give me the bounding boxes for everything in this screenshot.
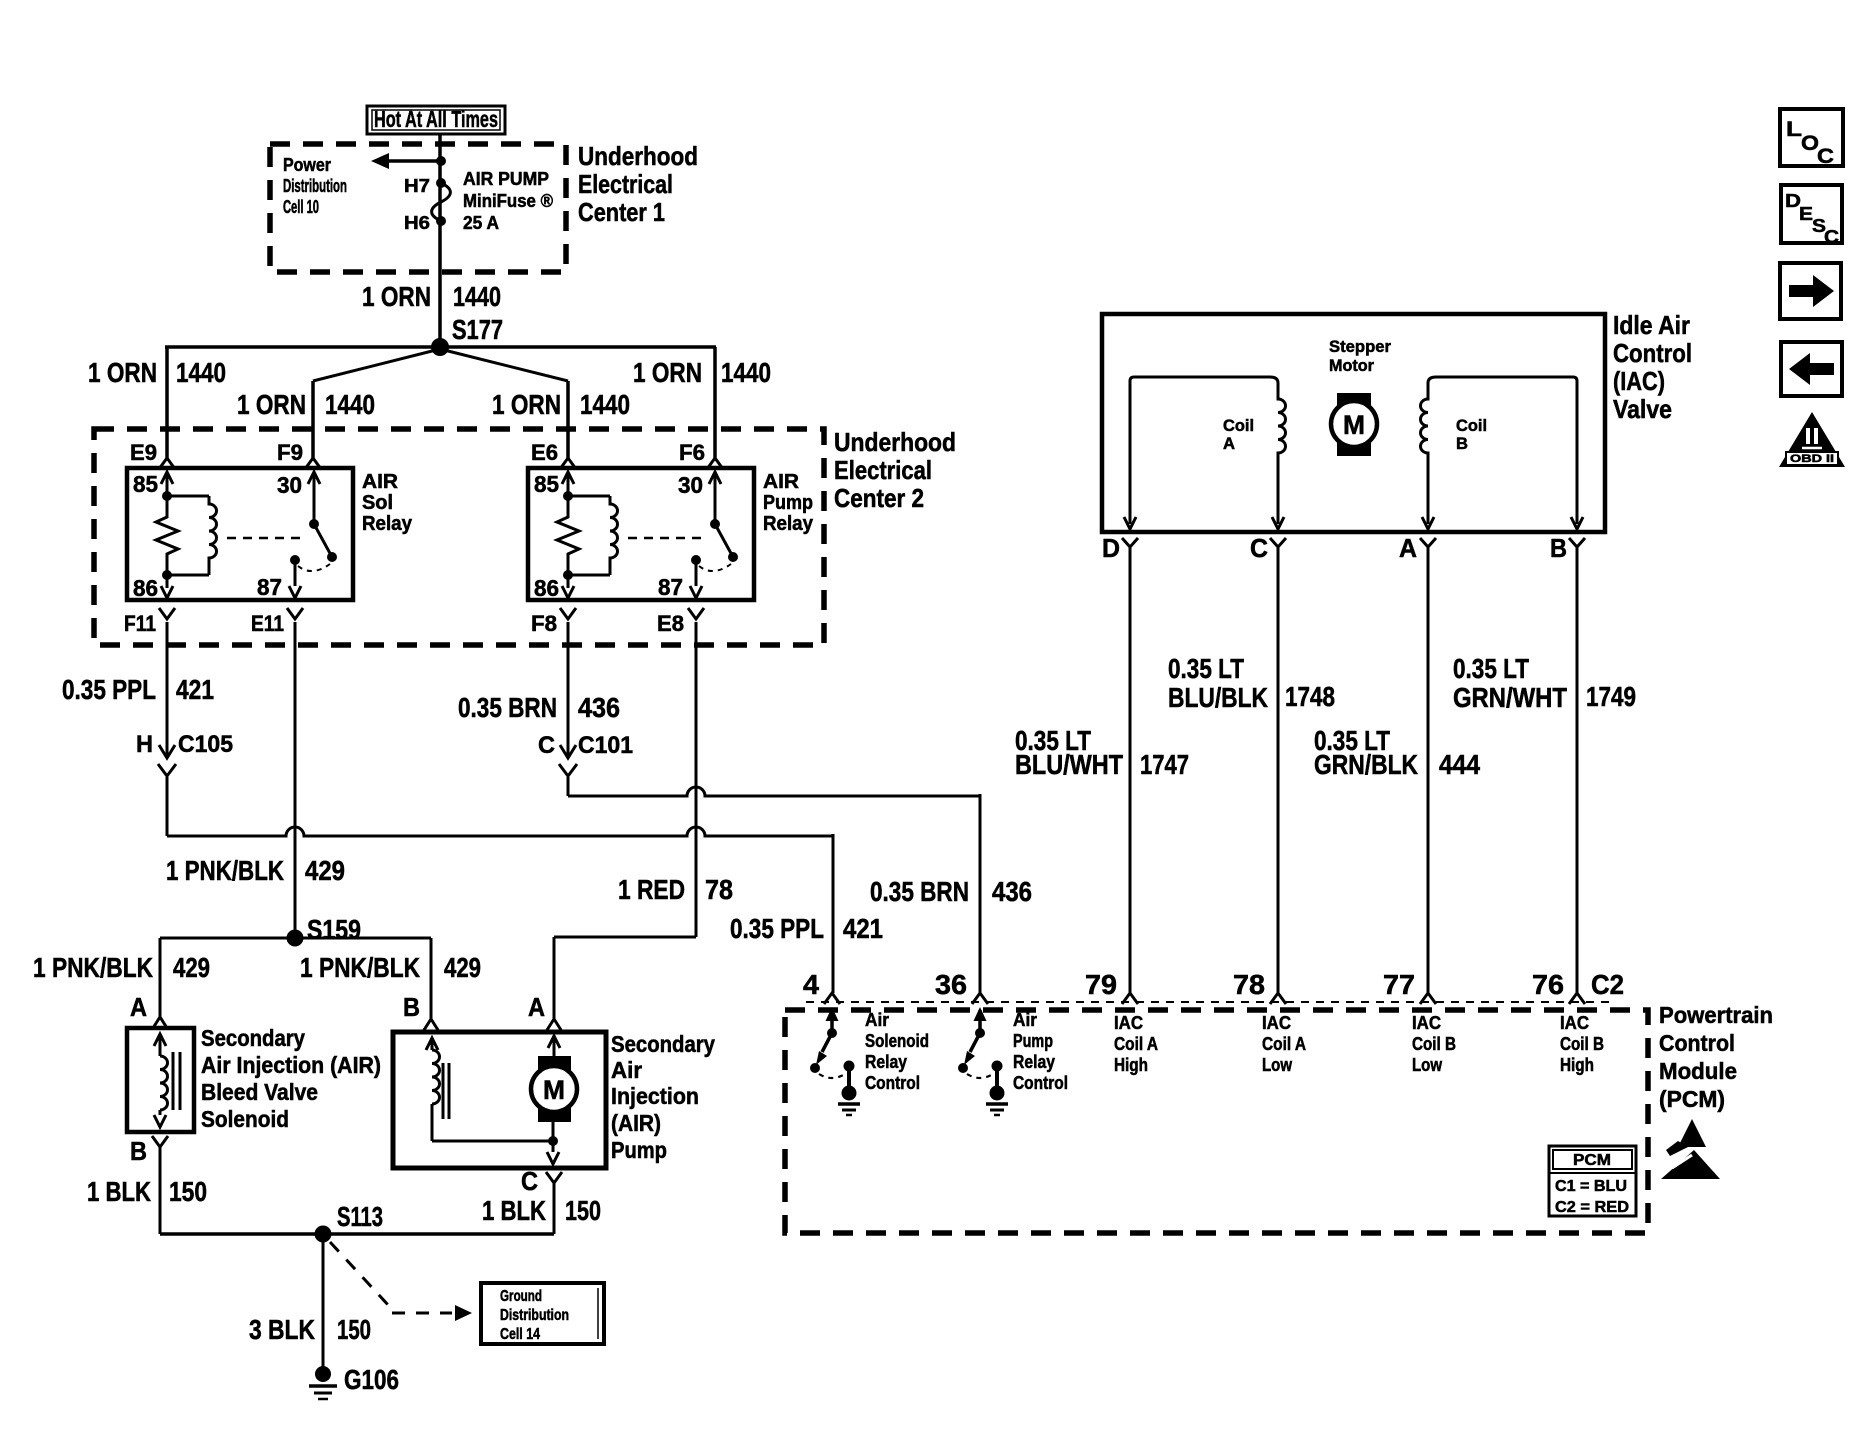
svg-text:Stepper: Stepper (1329, 337, 1391, 356)
splice S159 (287, 930, 304, 947)
box: Idle Air Control (IAC) Valve (1102, 314, 1605, 532)
svg-text:0.35 BRN: 0.35 BRN (458, 692, 557, 723)
svg-text:436: 436 (992, 876, 1032, 907)
PCM pin 76 connector (1569, 993, 1585, 1004)
svg-text:1 ORN: 1 ORN (237, 389, 306, 420)
wire: 1 RED 78 from E8 (695, 622, 698, 937)
svg-text:Valve: Valve (1613, 394, 1672, 424)
svg-text:1748: 1748 (1285, 681, 1335, 712)
connector E11 (287, 608, 303, 619)
component: Secondary Air Injection (AIR) Pump (393, 1032, 606, 1168)
svg-text:AIR PUMP: AIR PUMP (463, 169, 549, 189)
wire: diagonal to E6 (440, 349, 568, 381)
svg-text:Distribution: Distribution (283, 176, 347, 196)
svg-text:M: M (543, 1075, 565, 1105)
svg-text:F9: F9 (277, 440, 303, 465)
connector pin B (IAC) (1569, 538, 1585, 547)
svg-text:0.35 BRN: 0.35 BRN (870, 876, 969, 907)
svg-text:Relay: Relay (763, 513, 814, 535)
svg-text:Control: Control (1013, 1073, 1068, 1093)
svg-text:Coil: Coil (1223, 416, 1254, 435)
svg-text:1 ORN: 1 ORN (88, 357, 157, 388)
box: Powertrain Control Module (PCM) dashed (785, 1010, 1648, 1233)
svg-text:Air: Air (1013, 1010, 1037, 1030)
svg-text:IAC: IAC (1412, 1013, 1441, 1033)
wire: 3 BLK 150 to G106 (322, 1234, 325, 1369)
svg-text:S159: S159 (307, 914, 361, 945)
svg-text:C: C (1250, 533, 1268, 563)
svg-text:S177: S177 (452, 314, 503, 345)
svg-text:Relay: Relay (865, 1052, 907, 1072)
connector F6 (707, 458, 723, 469)
svg-text:Underhood: Underhood (578, 141, 698, 171)
svg-text:87: 87 (658, 574, 683, 600)
connector pin B (pump) (424, 1019, 438, 1030)
connector pin D (IAC) (1122, 538, 1138, 547)
svg-text:A: A (528, 992, 545, 1022)
wire: 1 BLK 150 from solenoid B (159, 1147, 162, 1234)
wire: S159 horizontal (160, 937, 431, 940)
svg-text:Solenoid: Solenoid (865, 1031, 929, 1051)
relay: AIR Sol Relay (127, 468, 353, 600)
svg-text:76: 76 (1532, 969, 1564, 1000)
svg-text:1747: 1747 (1140, 749, 1189, 780)
icon: DESC button (1781, 185, 1842, 243)
svg-text:AIR: AIR (362, 471, 399, 493)
connector pin C (pump) (546, 1172, 562, 1183)
svg-text:1 ORN: 1 ORN (362, 281, 431, 312)
svg-text:BLU/WHT: BLU/WHT (1015, 749, 1123, 780)
svg-text:Electrical: Electrical (834, 455, 932, 485)
box: Underhood Electrical Center 1 (dashed) (270, 144, 566, 272)
svg-text:1 BLK: 1 BLK (87, 1176, 151, 1207)
svg-text:36: 36 (935, 969, 967, 1000)
PCM pin 36 connector (972, 993, 988, 1004)
wire: IAC C to PCM 78 (0.35 LT BLU/BLK 1748) (1277, 547, 1280, 993)
svg-text:0.35 LT: 0.35 LT (1453, 653, 1529, 684)
svg-text:MiniFuse ®: MiniFuse ® (463, 191, 553, 211)
svg-text:Pump: Pump (1013, 1031, 1053, 1051)
connector face dotted line (806, 1001, 1612, 1003)
wire: IAC A to PCM 77 (0.35 LT GRN/BLK 444) (1427, 547, 1430, 993)
icon: forward arrow button (1780, 263, 1841, 319)
wire: IAC B to PCM 76 (0.35 LT GRN/WHT 1749) (1576, 547, 1579, 993)
svg-text:85: 85 (133, 471, 158, 497)
svg-text:E8: E8 (657, 611, 684, 636)
label box: Hot At All Times (367, 106, 505, 134)
svg-text:B: B (1550, 533, 1567, 563)
svg-text:429: 429 (305, 855, 345, 886)
PCM pin 4 connector (824, 993, 840, 1004)
svg-text:H: H (136, 731, 153, 758)
svg-text:78: 78 (705, 874, 733, 905)
connector pin A (pump) (547, 1019, 561, 1030)
svg-text:1 PNK/BLK: 1 PNK/BLK (300, 952, 420, 983)
connector pin A (solenoid) (153, 1017, 167, 1028)
connector E6 (560, 458, 576, 469)
wire: 1 BLK 150 from pump C (553, 1183, 556, 1234)
svg-text:(IAC): (IAC) (1613, 366, 1665, 396)
svg-text:Center 1: Center 1 (578, 197, 665, 227)
svg-text:Air Injection (AIR): Air Injection (AIR) (201, 1052, 381, 1078)
svg-text:IAC: IAC (1560, 1013, 1589, 1033)
svg-text:1 RED: 1 RED (618, 874, 685, 905)
stepper motor M (1337, 393, 1371, 456)
svg-text:150: 150 (169, 1176, 207, 1207)
svg-text:B: B (130, 1136, 147, 1166)
svg-text:Power: Power (283, 155, 331, 175)
svg-text:High: High (1560, 1055, 1594, 1075)
wire: BRN 436 to PCM pin 36 (567, 777, 570, 796)
connector F8 (560, 608, 576, 619)
svg-text:1 ORN: 1 ORN (633, 357, 702, 388)
connector E8 (688, 608, 704, 619)
icon: OBD II warning triangle (1779, 412, 1845, 467)
svg-text:Coil A: Coil A (1114, 1034, 1158, 1054)
svg-text:F8: F8 (531, 611, 557, 636)
arrowhead to Power Distribution (371, 153, 389, 169)
svg-text:G106: G106 (344, 1364, 399, 1395)
svg-text:78: 78 (1233, 969, 1265, 1000)
svg-text:(AIR): (AIR) (611, 1110, 661, 1136)
svg-text:Injection: Injection (611, 1083, 699, 1109)
svg-text:86: 86 (133, 575, 158, 601)
svg-text:1 ORN: 1 ORN (492, 389, 561, 420)
svg-text:E6: E6 (531, 440, 558, 465)
svg-text:1440: 1440 (721, 357, 771, 388)
svg-text:C2 = RED: C2 = RED (1555, 1199, 1629, 1216)
svg-text:F6: F6 (679, 440, 705, 465)
wire: 0.35 BRN 436 from F8 (567, 622, 570, 756)
svg-text:Pump: Pump (763, 492, 813, 514)
PCM: Air Pump Relay Control driver (978, 1010, 982, 1033)
in-line connector C101 pin C (560, 745, 576, 758)
svg-text:Control: Control (1659, 1030, 1735, 1056)
svg-text:Coil: Coil (1456, 416, 1487, 435)
svg-text:1 PNK/BLK: 1 PNK/BLK (166, 855, 284, 886)
svg-text:77: 77 (1383, 969, 1415, 1000)
splice S113 (315, 1226, 332, 1243)
svg-text:150: 150 (565, 1195, 601, 1226)
svg-text:L: L (1786, 118, 1802, 141)
wire: diagonal to F9 (313, 349, 440, 381)
svg-text:Air: Air (611, 1057, 642, 1083)
relay: AIR Pump Relay (528, 468, 754, 600)
svg-text:M: M (1343, 410, 1365, 440)
svg-text:0.35 LT: 0.35 LT (1168, 653, 1244, 684)
svg-text:85: 85 (534, 471, 559, 497)
svg-text:1 PNK/BLK: 1 PNK/BLK (33, 952, 153, 983)
svg-text:Coil A: Coil A (1262, 1034, 1306, 1054)
svg-text:1749: 1749 (1586, 681, 1636, 712)
wire: 0.35 PPL 421 from F11 (166, 622, 169, 756)
junction to Power Distribution (436, 156, 446, 166)
svg-text:A: A (1399, 533, 1417, 563)
svg-text:25 A: 25 A (463, 213, 499, 233)
svg-text:Distribution: Distribution (500, 1307, 569, 1324)
svg-text:Module: Module (1659, 1058, 1737, 1084)
svg-text:Relay: Relay (1013, 1052, 1055, 1072)
svg-text:A: A (1223, 434, 1235, 453)
svg-text:1440: 1440 (453, 281, 501, 312)
svg-text:C: C (538, 732, 555, 759)
svg-text:0.35 PPL: 0.35 PPL (730, 913, 824, 944)
svg-text:GRN/WHT: GRN/WHT (1453, 682, 1567, 713)
svg-text:429: 429 (444, 952, 481, 983)
PCM pin 79 connector (1122, 993, 1138, 1004)
svg-text:BLU/BLK: BLU/BLK (1168, 682, 1268, 713)
dashed reference arrow to Ground Distribution (330, 1242, 390, 1307)
wire: IAC D to PCM 79 (0.35 LT BLU/WHT 1747) (1129, 547, 1132, 993)
connector pin A (IAC) (1420, 538, 1436, 547)
svg-text:H6: H6 (404, 213, 430, 233)
box: Underhood Electrical Center 2 (dashed) (94, 429, 824, 645)
connector E9 (159, 458, 175, 469)
PCM pin 77 connector (1420, 993, 1436, 1004)
svg-text:Air: Air (865, 1010, 889, 1030)
svg-text:A: A (130, 992, 147, 1022)
svg-text:OBD II: OBD II (1790, 453, 1834, 465)
svg-text:H7: H7 (404, 176, 430, 196)
svg-text:3 BLK: 3 BLK (249, 1314, 315, 1345)
svg-text:C: C (1824, 227, 1839, 247)
svg-text:421: 421 (843, 913, 883, 944)
svg-text:Secondary: Secondary (201, 1025, 305, 1051)
svg-text:Cell 10: Cell 10 (283, 197, 319, 217)
svg-text:1440: 1440 (176, 357, 226, 388)
wire: ORN 1440 distribution bus (165, 345, 716, 349)
svg-text:E11: E11 (251, 611, 284, 636)
svg-text:Motor: Motor (1329, 356, 1374, 375)
fuse: AIR PUMP MiniFuse 25 A (H7-H6) (436, 178, 446, 188)
svg-text:Sol: Sol (362, 492, 393, 514)
svg-text:(PCM): (PCM) (1659, 1086, 1725, 1112)
svg-text:Relay: Relay (362, 513, 413, 535)
svg-text:Coil B: Coil B (1412, 1034, 1456, 1054)
svg-text:79: 79 (1085, 969, 1117, 1000)
svg-text:B: B (1456, 434, 1468, 453)
splice S177 (431, 338, 449, 356)
svg-text:Center 2: Center 2 (834, 483, 924, 513)
svg-text:IAC: IAC (1262, 1013, 1291, 1033)
svg-text:1440: 1440 (325, 389, 375, 420)
icon: back arrow button (1781, 342, 1842, 396)
svg-text:Control: Control (1613, 338, 1692, 368)
svg-text:E: E (1799, 204, 1813, 224)
svg-text:Control: Control (865, 1073, 920, 1093)
svg-text:1 BLK: 1 BLK (482, 1195, 546, 1226)
ground G106 (315, 1366, 331, 1382)
svg-text:C: C (1817, 145, 1834, 168)
svg-text:D: D (1102, 533, 1120, 563)
svg-text:C105: C105 (178, 731, 233, 758)
svg-text:B: B (403, 992, 420, 1022)
svg-text:High: High (1114, 1055, 1148, 1075)
svg-text:E9: E9 (130, 440, 157, 465)
svg-text:IAC: IAC (1114, 1013, 1143, 1033)
svg-text:Powertrain: Powertrain (1659, 1002, 1773, 1028)
PCM: Air Solenoid Relay Control driver (830, 1010, 834, 1033)
svg-text:F11: F11 (124, 611, 156, 636)
connector F9 (305, 458, 321, 469)
wire: PPL 421 to PCM pin 4 (166, 777, 169, 836)
svg-text:Idle Air: Idle Air (1613, 310, 1690, 340)
icon: LOC button (1780, 109, 1843, 166)
svg-text:C2: C2 (1591, 969, 1624, 1000)
svg-text:GRN/BLK: GRN/BLK (1314, 749, 1418, 780)
wire: S113 horizontal BLK 150 (160, 1232, 554, 1236)
PCM legend box (1549, 1146, 1636, 1216)
IAC coil B (1421, 377, 1577, 524)
svg-text:C101: C101 (578, 732, 633, 759)
connector pin B (solenoid) (152, 1136, 168, 1147)
connector pin C (IAC) (1270, 538, 1286, 547)
svg-text:429: 429 (173, 952, 210, 983)
IAC coil A (1130, 377, 1286, 524)
svg-text:C1 = BLU: C1 = BLU (1555, 1178, 1627, 1195)
svg-text:Bleed Valve: Bleed Valve (201, 1079, 318, 1105)
svg-text:0.35 PPL: 0.35 PPL (62, 674, 156, 705)
svg-text:30: 30 (277, 472, 302, 498)
svg-text:Underhood: Underhood (834, 427, 956, 457)
svg-text:Coil B: Coil B (1560, 1034, 1604, 1054)
PCM pin 78 connector (1270, 993, 1286, 1004)
svg-text:PCM: PCM (1573, 1152, 1611, 1169)
wire: battery feed B+ vertical (438, 134, 442, 347)
svg-text:30: 30 (678, 472, 703, 498)
connector F11 (159, 608, 175, 619)
ESD warning symbol (1678, 1119, 1706, 1147)
svg-text:Cell 14: Cell 14 (500, 1326, 540, 1343)
svg-text:Secondary: Secondary (611, 1031, 715, 1057)
svg-text:436: 436 (578, 692, 620, 723)
svg-text:AIR: AIR (763, 471, 800, 493)
svg-text:86: 86 (534, 575, 559, 601)
svg-text:87: 87 (257, 574, 282, 600)
svg-text:S113: S113 (337, 1201, 383, 1232)
svg-text:Solenoid: Solenoid (201, 1106, 289, 1132)
svg-text:Ground: Ground (500, 1288, 542, 1305)
svg-text:Low: Low (1262, 1055, 1293, 1075)
label box: Ground Distribution Cell 14 (481, 1283, 604, 1344)
svg-text:4: 4 (803, 969, 819, 1000)
svg-text:C: C (521, 1166, 538, 1196)
component: Secondary Air Injection (AIR) Bleed Valve Solenoid (127, 1028, 194, 1132)
svg-text:421: 421 (176, 674, 214, 705)
svg-text:Electrical: Electrical (578, 169, 673, 199)
svg-text:Hot At All Times: Hot At All Times (374, 106, 498, 132)
in-line connector C105 pin H (159, 745, 175, 758)
svg-text:150: 150 (337, 1314, 371, 1345)
wire: 1 PNK/BLK 429 from E11 (294, 622, 297, 938)
motor M (pump) (548, 1036, 560, 1048)
svg-text:Pump: Pump (611, 1137, 667, 1163)
svg-text:444: 444 (1439, 749, 1480, 780)
svg-text:Low: Low (1412, 1055, 1443, 1075)
svg-text:1440: 1440 (580, 389, 630, 420)
